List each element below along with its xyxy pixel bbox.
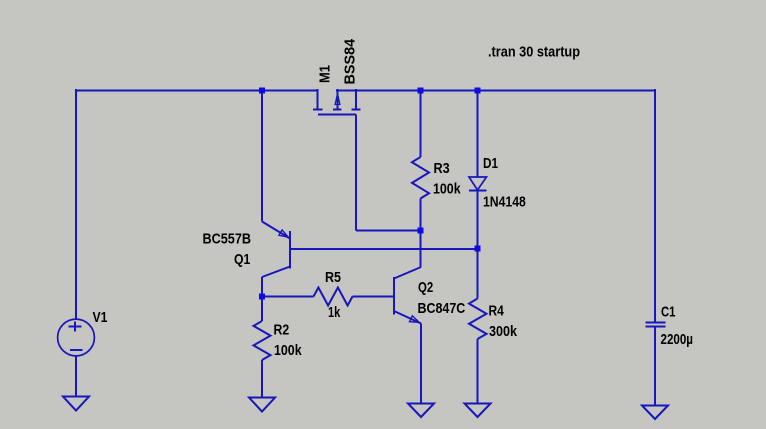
wire gate horizontal to R3 bbox=[356, 230, 421, 232]
wire R2 bottom lead bbox=[261, 360, 263, 398]
svg-text:Q1: Q1 bbox=[234, 251, 250, 268]
wire Q1 base to D1 junction bbox=[291, 248, 478, 250]
capacitor C1 bottom plate bbox=[646, 326, 666, 328]
svg-text:300k: 300k bbox=[489, 323, 518, 340]
wire V1 top bbox=[75, 89, 77, 320]
resistor R3 zigzag bbox=[412, 157, 429, 199]
capacitor C1 top plate bbox=[646, 322, 666, 324]
svg-text:R5: R5 bbox=[325, 269, 341, 286]
svg-text:M1: M1 bbox=[317, 65, 334, 83]
node junction top rail / Q1 emitter bbox=[259, 88, 265, 94]
svg-text:.tran 30 startup: .tran 30 startup bbox=[488, 43, 580, 60]
transistor Q1 collector diagonal bbox=[262, 267, 290, 278]
node junction R3 / gate / Q2 collector bbox=[418, 228, 424, 234]
voltage source V1 plus sign bbox=[69, 326, 82, 328]
svg-text:R3: R3 bbox=[434, 160, 450, 177]
svg-text:1k: 1k bbox=[328, 304, 341, 321]
wire R3 junction to Q2 collector bbox=[420, 231, 422, 268]
svg-text:100k: 100k bbox=[274, 342, 302, 359]
transistor Q1 emitter diagonal bbox=[262, 222, 290, 239]
transistor Q1 base bar bbox=[289, 231, 291, 269]
wire V1 bottom bbox=[75, 356, 77, 397]
wire R3 top lead bbox=[420, 90, 422, 157]
transistor Q2 collector diagonal bbox=[394, 267, 421, 279]
node junction R5 / R2 / Q1 collector bbox=[259, 294, 265, 300]
node junction top rail / R3 bbox=[418, 88, 424, 94]
transistor Q1 emitter arrow bbox=[279, 230, 288, 237]
transistor M1 left vertical (source lead) bbox=[317, 89, 319, 110]
ground R2 bbox=[249, 398, 275, 412]
wire Q2 emitter down bbox=[420, 324, 422, 404]
ground V1 bbox=[63, 397, 89, 411]
voltage source V1 minus sign bbox=[70, 349, 83, 351]
svg-text:D1: D1 bbox=[483, 155, 498, 172]
wire Q1 collector drop bbox=[261, 277, 263, 297]
wire R2 top lead bbox=[261, 297, 263, 322]
svg-text:BC557B: BC557B bbox=[203, 231, 252, 248]
transistor Q2 base bar bbox=[393, 277, 395, 315]
wire R4 top lead bbox=[477, 249, 479, 299]
wire R5 right lead bbox=[353, 296, 395, 298]
transistor M1 body lead bbox=[337, 89, 339, 110]
diode D1 triangle bbox=[469, 177, 487, 190]
svg-text:1N4148: 1N4148 bbox=[483, 194, 526, 211]
transistor M1 left channel bar bbox=[313, 109, 323, 111]
wire top rail left bbox=[75, 90, 319, 92]
resistor R2 zigzag bbox=[254, 321, 271, 360]
wire M1 gate lead down bbox=[355, 115, 357, 231]
transistor M1 middle channel bar bbox=[333, 109, 342, 111]
resistor R5 zigzag bbox=[314, 288, 353, 306]
wire D1 bottom lead bbox=[477, 191, 479, 249]
wire top rail right bbox=[336, 90, 655, 92]
svg-text:V1: V1 bbox=[93, 309, 108, 326]
transistor M1 drain lead bbox=[355, 89, 357, 110]
transistor M1 body arrow bbox=[335, 94, 340, 105]
diode D1 cathode bar bbox=[469, 190, 487, 192]
voltage source V1 circle bbox=[58, 319, 95, 356]
svg-text:C1: C1 bbox=[661, 304, 676, 321]
svg-text:R2: R2 bbox=[274, 321, 290, 338]
node junction Q1 base / D1 / R4 bbox=[475, 246, 481, 252]
ground Q2 bbox=[408, 404, 434, 418]
wire R5 left lead bbox=[262, 296, 314, 298]
transistor M1 right channel bar bbox=[352, 109, 361, 111]
transistor Q2 emitter diagonal bbox=[394, 311, 421, 324]
ground R4 bbox=[465, 404, 491, 418]
wire R4 bottom lead bbox=[477, 339, 479, 404]
svg-text:R4: R4 bbox=[489, 303, 505, 320]
wire R3 bottom lead bbox=[420, 199, 422, 231]
wire D1 top lead bbox=[477, 90, 479, 177]
svg-text:100k: 100k bbox=[433, 181, 461, 198]
svg-text:Q2: Q2 bbox=[418, 279, 433, 296]
resistor R4 zigzag bbox=[469, 299, 487, 340]
svg-text:BC847C: BC847C bbox=[418, 300, 466, 317]
wire C1 top drop bbox=[654, 89, 656, 322]
svg-text:BSS84: BSS84 bbox=[342, 38, 359, 84]
ground C1 bbox=[642, 406, 668, 420]
svg-text:2200µ: 2200µ bbox=[661, 331, 694, 348]
transistor Q2 emitter arrow bbox=[410, 316, 420, 323]
wire Q1 emitter drop bbox=[261, 90, 263, 222]
wire C1 bottom lead bbox=[654, 326, 656, 406]
transistor M1 gate line bbox=[318, 114, 356, 116]
node junction top rail / D1 bbox=[475, 88, 481, 94]
